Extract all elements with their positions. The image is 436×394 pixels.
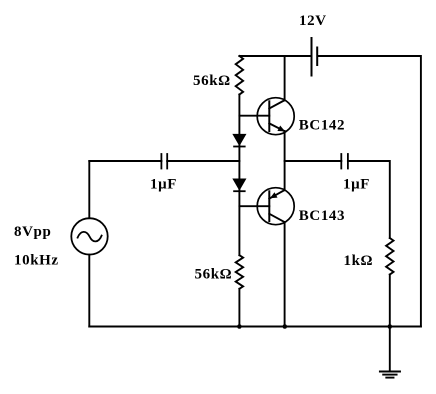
svg-text:BC142: BC142: [299, 118, 345, 134]
svg-text:56kΩ: 56kΩ: [193, 73, 231, 89]
svg-text:1kΩ: 1kΩ: [344, 253, 374, 269]
svg-text:BC143: BC143: [299, 208, 345, 224]
svg-text:10kHz: 10kHz: [14, 253, 59, 269]
svg-text:1μF: 1μF: [343, 177, 370, 193]
svg-text:8Vpp: 8Vpp: [14, 224, 51, 240]
svg-text:56kΩ: 56kΩ: [195, 267, 233, 283]
svg-text:1μF: 1μF: [150, 176, 177, 192]
svg-text:12V: 12V: [299, 13, 327, 29]
